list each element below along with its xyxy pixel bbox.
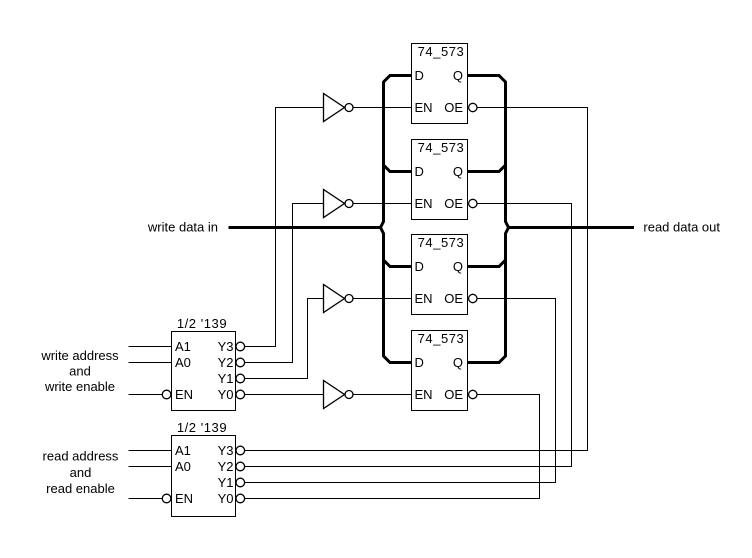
Y1 bubble of write decoder xyxy=(236,374,245,383)
wire: latch U1 OE to read decoder Y3 xyxy=(245,108,588,451)
EN bubble of write decoder xyxy=(162,390,171,399)
svg-text:write address: write address xyxy=(40,348,119,363)
svg-text:1/2 '139: 1/2 '139 xyxy=(177,316,227,331)
EN bubble of read decoder xyxy=(162,494,171,503)
svg-text:D: D xyxy=(415,259,424,274)
wire: write decoder Y0 to inverter 4 input xyxy=(245,394,324,396)
svg-text:A1: A1 xyxy=(175,443,191,458)
svg-text:1/2 '139: 1/2 '139 xyxy=(177,420,227,435)
svg-text:A1: A1 xyxy=(175,339,191,354)
svg-text:74_573: 74_573 xyxy=(418,44,465,59)
svg-text:OE: OE xyxy=(444,291,463,306)
svg-text:EN: EN xyxy=(415,196,433,211)
Y2 bubble of write decoder xyxy=(236,358,245,367)
wire: write EN input xyxy=(129,394,163,396)
wire: write decoder Y1 to inverter 3 input xyxy=(245,299,324,379)
svg-text:read address: read address xyxy=(43,449,119,464)
OE bubble of U2 xyxy=(469,199,477,207)
OE bubble of U4 xyxy=(469,390,477,398)
svg-text:read data out: read data out xyxy=(643,220,720,235)
wire: latch U2 OE to read decoder Y2 xyxy=(245,204,572,467)
decoder U5 1/2 '139 (write address) xyxy=(162,316,244,411)
svg-text:Q: Q xyxy=(453,68,463,83)
Y1 bubble of read decoder xyxy=(236,478,245,487)
wire: read data out bus (thick horizontal) xyxy=(508,226,635,229)
decoder U6 1/2 '139 (read address) xyxy=(162,420,244,517)
wire: read A1 input xyxy=(129,450,172,452)
wire: read A0 input xyxy=(129,466,172,468)
svg-text:Y1: Y1 xyxy=(218,371,234,386)
svg-text:EN: EN xyxy=(175,491,193,506)
wire: write decoder Y2 to inverter 2 input xyxy=(245,204,324,363)
inverter 4 xyxy=(324,381,354,409)
svg-text:Q: Q xyxy=(453,355,463,370)
svg-text:Y3: Y3 xyxy=(218,339,234,354)
wire: write A0 input xyxy=(129,362,172,364)
svg-text:Y0: Y0 xyxy=(218,387,234,402)
latch U2 74_573 xyxy=(412,140,477,220)
inverter 1 (write word 3 enable) xyxy=(324,94,354,122)
svg-text:Y1: Y1 xyxy=(218,475,234,490)
wire: left D bus (thick vertical, elbows to D1 and D4, chevron junction at write line) xyxy=(381,76,412,363)
svg-text:and: and xyxy=(70,465,92,480)
inverter 2 xyxy=(324,190,354,218)
svg-text:74_573: 74_573 xyxy=(418,140,465,155)
svg-text:D: D xyxy=(415,68,424,83)
svg-text:Y3: Y3 xyxy=(218,443,234,458)
svg-text:OE: OE xyxy=(444,387,463,402)
wire: inverter 3 output to latch U3 EN xyxy=(353,298,412,300)
wire: write data in bus (thick horizontal) xyxy=(229,226,382,229)
latch U3 74_573 xyxy=(412,235,477,315)
wire: write decoder Y3 to inverter 1 input xyxy=(245,108,324,347)
svg-text:74_573: 74_573 xyxy=(418,331,465,346)
wire: Q bus branch from latch U2 Q pin xyxy=(468,165,506,172)
wire: Q bus branch from latch U3 Q pin xyxy=(468,260,506,267)
wire: inverter 4 output to latch U4 EN xyxy=(353,394,412,396)
wire: latch U3 OE to read decoder Y1 xyxy=(245,299,556,483)
svg-text:write enable: write enable xyxy=(44,379,115,394)
Y3 bubble of read decoder xyxy=(236,446,245,455)
svg-text:read enable: read enable xyxy=(46,481,115,496)
svg-text:EN: EN xyxy=(415,291,433,306)
svg-text:Q: Q xyxy=(453,164,463,179)
svg-text:OE: OE xyxy=(444,196,463,211)
wire: right Q bus (thick vertical, elbows to Q1 and Q4, chevron junction at read line) xyxy=(468,76,509,363)
svg-text:D: D xyxy=(415,355,424,370)
Y3 bubble of write decoder xyxy=(236,342,245,351)
inverter 3 xyxy=(324,285,354,313)
svg-text:EN: EN xyxy=(415,100,433,115)
OE bubble of U3 xyxy=(469,294,477,302)
wire: inverter 1 output to latch U1 EN xyxy=(353,107,412,109)
svg-text:EN: EN xyxy=(175,387,193,402)
Y2 bubble of read decoder xyxy=(236,462,245,471)
wire: D bus branch to latch U2 D pin xyxy=(384,165,412,172)
Y0 bubble of read decoder xyxy=(236,494,245,503)
wire: latch U4 OE to read decoder Y0 xyxy=(245,395,540,499)
svg-text:write data in: write data in xyxy=(147,220,218,235)
svg-text:OE: OE xyxy=(444,100,463,115)
wire: D bus branch to latch U3 D pin xyxy=(384,260,412,267)
svg-text:A0: A0 xyxy=(175,459,191,474)
svg-text:D: D xyxy=(415,164,424,179)
svg-text:Y0: Y0 xyxy=(218,491,234,506)
svg-text:A0: A0 xyxy=(175,355,191,370)
svg-text:and: and xyxy=(69,364,91,379)
Y0 bubble of write decoder xyxy=(236,390,245,399)
svg-text:74_573: 74_573 xyxy=(418,235,465,250)
svg-text:EN: EN xyxy=(415,387,433,402)
svg-text:Y2: Y2 xyxy=(218,459,234,474)
latch U1 74_573 xyxy=(412,44,477,124)
svg-text:Y2: Y2 xyxy=(218,355,234,370)
OE bubble of U1 xyxy=(469,103,477,111)
wire: read EN input xyxy=(129,498,163,500)
latch U4 74_573 xyxy=(412,331,477,411)
wire: inverter 2 output to latch U2 EN xyxy=(353,203,412,205)
wire: write A1 input xyxy=(129,346,172,348)
svg-text:Q: Q xyxy=(453,259,463,274)
